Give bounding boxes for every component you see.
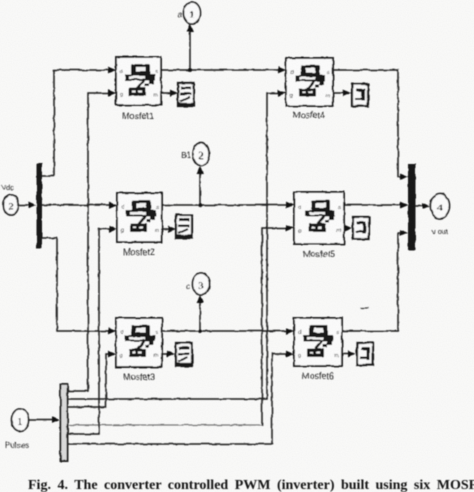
- wire Mosfet2 m to Scope2: [162, 228, 173, 230]
- demux Pulses: [61, 384, 68, 461]
- wire right bus to out port: [416, 205, 427, 207]
- wire DC bus bottom tap to Mosfet3 drain: [42, 238, 113, 331]
- junction node a: [188, 68, 192, 72]
- wire demux out4 to Mosfet5 gate: [68, 424, 262, 426]
- wire demux out1 to Mosfet1 gate: [68, 93, 113, 391]
- mosfet U4 block: [286, 58, 333, 106]
- mosfet U2 block: [117, 193, 162, 242]
- scope S5: [353, 217, 369, 239]
- outport a: [184, 2, 201, 24]
- caption: [28, 478, 474, 492]
- wire Mosfet3 out to Mosfet6 in: [162, 330, 291, 332]
- wire node c tap: [199, 301, 201, 331]
- scope S4: [352, 84, 368, 106]
- outport c: [193, 273, 210, 295]
- wire Mosfet1 out to Mosfet4 in: [161, 69, 283, 71]
- mosfet U6 block: [294, 318, 342, 366]
- wire Mosfet5 m to Scope5: [344, 227, 349, 229]
- wire demux out5 to Mosfet2 gate: [68, 229, 114, 434]
- wire Vdc to left DC bus: [20, 204, 33, 206]
- right output bus bar: [408, 164, 416, 250]
- wire DC bus top tap to Mosfet1 drain: [42, 70, 113, 176]
- wire Mosfet3 m to Scope3: [162, 353, 172, 355]
- left DC bus bar: [37, 163, 43, 248]
- wire demux out6 to Mosfet6 gate: [68, 354, 291, 444]
- wire Pulses to demux: [29, 419, 57, 421]
- wire Mosfet2 out to Mosfet5 in: [162, 204, 291, 206]
- wire Mosfet4 out to right bus: [333, 70, 405, 177]
- scope S2: [176, 215, 192, 238]
- wire demux out2 to Mosfet4 gate: [68, 93, 283, 399]
- wire DC bus to Mosfet2 drain: [42, 204, 114, 206]
- stray mark: [361, 307, 368, 309]
- wire node a tap: [189, 30, 191, 70]
- outport B: [193, 143, 209, 166]
- mosfet U1 block: [116, 57, 161, 105]
- scope S1: [178, 83, 194, 106]
- outport out: [431, 194, 450, 219]
- wire Mosfet1 m to Scope1: [161, 92, 175, 94]
- junction node B: [198, 203, 202, 207]
- wire demux out3 to Mosfet3 gate: [68, 354, 113, 407]
- wire Mosfet4 m to Scope4: [333, 92, 348, 94]
- wire node B tap: [199, 172, 201, 205]
- scope S6: [357, 343, 373, 365]
- wire Mosfet6 out to right bus: [342, 233, 405, 331]
- mosfet U3 block: [116, 318, 162, 367]
- scope S3: [176, 343, 192, 366]
- wire Mosfet6 m to Scope6: [342, 353, 353, 355]
- wire Mosfet5 out to right bus: [344, 204, 405, 206]
- inport Pulses: [12, 409, 29, 431]
- inport Vdc: [4, 195, 19, 215]
- mosfet U5 block: [294, 192, 344, 244]
- junction node c: [198, 329, 202, 333]
